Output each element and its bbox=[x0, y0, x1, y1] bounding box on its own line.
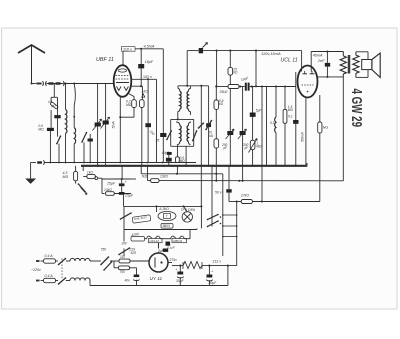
resistor 13kOhm bbox=[102, 193, 105, 195]
capacitor block band bbox=[88, 139, 93, 142]
wire H1 corner down x=163 bbox=[162, 49, 164, 133]
svg-text:25μF: 25μF bbox=[106, 182, 116, 186]
IF transformer T1 top bracket bbox=[178, 85, 209, 87]
wire bottom bus corner bbox=[227, 266, 229, 286]
electrolytic 25uF lower bbox=[119, 192, 125, 195]
ground bbox=[26, 179, 35, 183]
svg-text:7: 7 bbox=[166, 215, 168, 219]
svg-text:MΩ: MΩ bbox=[256, 145, 262, 149]
svg-text:UBF11: UBF11 bbox=[173, 239, 183, 243]
capacitor 35pF on osc line bbox=[160, 133, 166, 137]
svg-text:0,4 A: 0,4 A bbox=[45, 274, 54, 278]
tube UY 11 internals bbox=[154, 258, 156, 268]
tube UBF 11 internals bbox=[118, 69, 126, 72]
svg-text:kΩ: kΩ bbox=[209, 134, 214, 138]
svg-text:45mA: 45mA bbox=[313, 54, 323, 58]
svg-text:UBF 11: UBF 11 bbox=[96, 57, 114, 63]
svg-text:UY 11: UY 11 bbox=[150, 276, 163, 281]
wire H1 110v line bbox=[121, 48, 163, 50]
trimmer on H1b bbox=[199, 48, 203, 53]
tube UY 11 envelope bbox=[149, 253, 168, 272]
svg-text:25kΩ: 25kΩ bbox=[219, 90, 228, 94]
choke lower bbox=[66, 280, 70, 282]
resistor 0,5 MOhm osc bbox=[176, 157, 180, 163]
wire rail2 bbox=[124, 229, 197, 231]
resistor 0,3 MOhm diagonal bbox=[50, 97, 52, 104]
svg-text:525: 525 bbox=[131, 251, 137, 255]
wire gang dashed bbox=[61, 259, 63, 279]
wire UCL anode x320 via NG bbox=[319, 95, 321, 122]
wire tuning branch 2 bbox=[105, 84, 107, 166]
voltage selector switches bbox=[98, 260, 102, 262]
wire line A bbox=[159, 180, 343, 182]
wire x122 bus to rail bbox=[121, 166, 123, 179]
svg-text:102 v: 102 v bbox=[143, 75, 152, 79]
wire H2 102v line bbox=[131, 78, 156, 80]
output transformer secondary bbox=[355, 52, 357, 55]
svg-text:110 v: 110 v bbox=[123, 47, 132, 51]
switch arm mains low bbox=[119, 248, 130, 255]
wire left branch stem bbox=[53, 84, 55, 98]
wire tuning branch 1 bbox=[97, 84, 99, 166]
svg-text:110v,15mA: 110v,15mA bbox=[261, 51, 281, 56]
svg-text:kΩ: kΩ bbox=[233, 71, 238, 75]
svg-text:750: 750 bbox=[101, 247, 107, 251]
plug symbol on H5 bbox=[37, 161, 42, 163]
resistor 1,5MOhm bbox=[284, 86, 286, 109]
resistor NG bbox=[318, 122, 322, 133]
capacitor on x295 bbox=[293, 120, 298, 124]
svg-text:1kΩ: 1kΩ bbox=[87, 171, 93, 175]
wire column x242 bbox=[242, 86, 244, 166]
wire UCL grid column x295 bbox=[295, 87, 297, 167]
wire L1 line bbox=[140, 166, 142, 174]
antenna plug coupling bbox=[42, 81, 45, 86]
wire H5 dots bbox=[50, 162, 52, 164]
terminal mains lower bbox=[36, 280, 40, 282]
svg-text:+: + bbox=[211, 270, 213, 274]
wire column x256 bbox=[255, 51, 257, 87]
svg-text:1kΩ: 1kΩ bbox=[142, 90, 149, 94]
switch arm osc right bbox=[193, 131, 197, 141]
switch arm bias bbox=[78, 184, 85, 192]
wire ground stem bbox=[31, 162, 36, 164]
resistor 750 box bbox=[119, 266, 130, 270]
oscillator transformer T2 windings bbox=[176, 122, 180, 126]
switch arm band bbox=[82, 133, 87, 143]
svg-text:27kΩ: 27kΩ bbox=[240, 193, 249, 197]
capacitor 19uF series bbox=[245, 83, 247, 91]
dial lamp with cross bbox=[184, 206, 188, 211]
svg-text:2nF: 2nF bbox=[121, 241, 129, 245]
wire mains selector columns bbox=[222, 174, 224, 256]
svg-text:0,1μF: 0,1μF bbox=[167, 246, 176, 250]
resistor 1kOhm vertical bbox=[140, 100, 145, 108]
wire UCL cathode x306 bbox=[305, 97, 307, 166]
svg-text:4 GW 29: 4 GW 29 bbox=[348, 89, 365, 128]
svg-text:kΩ: kΩ bbox=[219, 102, 224, 106]
svg-text:MΩ: MΩ bbox=[288, 108, 294, 112]
node antenna junction bbox=[30, 82, 32, 84]
wire filament connections bbox=[145, 238, 147, 240]
svg-text:5803: 5803 bbox=[163, 224, 171, 228]
svg-text:18μF: 18μF bbox=[145, 60, 154, 64]
svg-text:4,5mA: 4,5mA bbox=[144, 45, 155, 49]
svg-text:25μF: 25μF bbox=[124, 193, 134, 197]
svg-text:40v: 40v bbox=[125, 278, 131, 282]
capacitor 0,1 bbox=[166, 158, 172, 162]
oscillator transformer T2 brackets bbox=[171, 118, 194, 120]
svg-text:270v: 270v bbox=[170, 258, 178, 262]
switch arm dial left bbox=[121, 213, 132, 219]
svg-text:NG: NG bbox=[323, 126, 329, 130]
resistor 0,2 MOhm bbox=[129, 94, 135, 100]
svg-text:~220v: ~220v bbox=[31, 268, 41, 272]
wire thick bus H6 bbox=[81, 165, 307, 167]
tube UCL 11 envelope bbox=[298, 66, 318, 98]
wire line B 27k bbox=[229, 201, 241, 203]
svg-text:0,4 A: 0,4 A bbox=[45, 254, 54, 258]
wire to UY11 bbox=[130, 260, 149, 262]
wire speaker bottom line bbox=[317, 76, 344, 78]
wire cathode UBF down bbox=[119, 96, 121, 163]
box PHILIPS 2233 bbox=[132, 215, 151, 223]
terminal jack bbox=[95, 177, 98, 180]
wire H2b corner up to UCL grid bbox=[295, 72, 297, 87]
switch mains lower bbox=[56, 280, 59, 282]
wire anode drops into UCL bbox=[301, 51, 303, 72]
svg-text:6,3kΩ: 6,3kΩ bbox=[160, 207, 170, 211]
capacitor block right of T2 bbox=[206, 123, 211, 127]
svg-text:5μF: 5μF bbox=[256, 109, 263, 113]
speaker bbox=[356, 51, 368, 53]
resistor 20kOhm bbox=[215, 109, 217, 138]
wire H2b bbox=[216, 86, 228, 88]
wire H1c to transformer bbox=[311, 51, 343, 53]
trimmer 300pF bbox=[240, 131, 246, 135]
capacitor 50pF bbox=[147, 79, 149, 123]
filament UBF 11 bbox=[171, 236, 185, 239]
filament UCL 11 bbox=[147, 236, 161, 239]
potentiometer 1MOhm bbox=[250, 140, 255, 149]
svg-text:13kΩ: 13kΩ bbox=[104, 188, 112, 192]
wire UY top feed bbox=[158, 252, 160, 253]
box 5803 bbox=[161, 224, 173, 229]
svg-text:UCL 11: UCL 11 bbox=[281, 58, 298, 64]
switch mains upper bbox=[56, 260, 59, 262]
switch arm mid column bbox=[206, 121, 212, 130]
coil 0,1 column x276 bbox=[275, 86, 277, 117]
svg-text:30μF: 30μF bbox=[176, 279, 185, 283]
wire UY output 270v bbox=[168, 262, 172, 264]
wire antenna stem bbox=[31, 45, 33, 84]
label 110v box bbox=[122, 47, 136, 52]
antenna bbox=[18, 45, 45, 53]
svg-text:0,1: 0,1 bbox=[270, 121, 275, 125]
filter resistor zigzag bbox=[172, 265, 183, 267]
wire column x266 bbox=[266, 86, 268, 166]
choke upper bbox=[66, 260, 70, 262]
svg-text:0,1: 0,1 bbox=[288, 115, 293, 119]
resistor 25kOhm horizontal bbox=[228, 85, 239, 89]
svg-text:7kΩ: 7kΩ bbox=[141, 174, 147, 178]
wire H1b osc supply bbox=[187, 50, 198, 52]
wire T2 stems down bbox=[176, 145, 178, 157]
trimmer arm if bbox=[167, 131, 171, 140]
svg-text:50mA: 50mA bbox=[301, 132, 305, 142]
wire selector drop bbox=[236, 265, 238, 267]
wire rail1 bbox=[124, 205, 202, 207]
svg-text:30μF: 30μF bbox=[209, 281, 218, 285]
scale lamp oval bbox=[156, 206, 158, 212]
trimmer cap 1 bbox=[95, 123, 101, 127]
capacitor block 2 left column bbox=[50, 110, 52, 128]
trimmer cap 2 bbox=[103, 121, 109, 125]
tube UBF 11 envelope bbox=[114, 65, 132, 97]
wire mains bottom bus bbox=[90, 285, 228, 287]
wire column x262 bbox=[261, 86, 263, 166]
wire osc top vertical bbox=[186, 51, 188, 86]
svg-text:MΩ: MΩ bbox=[63, 175, 69, 179]
switch arm left column bbox=[57, 136, 61, 143]
trimmer 200pF bbox=[227, 131, 233, 135]
svg-text:2nF: 2nF bbox=[317, 59, 325, 63]
capacitor block on left branch bbox=[57, 97, 59, 115]
svg-text:750: 750 bbox=[120, 270, 126, 274]
wire transformer down to line A bbox=[342, 77, 344, 181]
svg-text:5mA: 5mA bbox=[112, 121, 116, 129]
capacitor 0,1uF filament bbox=[166, 242, 171, 246]
IF transformer T1 windings bbox=[178, 89, 180, 92]
selector rungs bbox=[223, 214, 237, 216]
capacitor 18uF bbox=[140, 48, 142, 50]
svg-text:MΩ: MΩ bbox=[126, 103, 132, 107]
svg-text:50 v: 50 v bbox=[215, 191, 222, 195]
svg-text:12kΩ: 12kΩ bbox=[160, 174, 168, 178]
wire down from cap to switch bbox=[57, 118, 59, 136]
switch arm right2 bbox=[199, 123, 204, 128]
switch arms right dial bbox=[211, 166, 213, 227]
antenna coil L1 bbox=[65, 84, 67, 110]
wire column x252 with 5uF bbox=[252, 86, 254, 112]
resistor 27kOhm bbox=[241, 200, 252, 204]
wire tube lower stub bbox=[131, 85, 142, 87]
coil L2 with top curve bbox=[74, 84, 75, 106]
electrolytic 25uF upper bbox=[101, 178, 103, 193]
wire anode drop to UBF bbox=[122, 51, 124, 65]
tube UCL 11 internals bbox=[303, 73, 308, 75]
svg-text:UCL11: UCL11 bbox=[150, 239, 160, 243]
output transformer primary bbox=[342, 52, 344, 56]
resistor 110 bbox=[111, 260, 119, 262]
wire grid line H3 bbox=[32, 83, 37, 85]
svg-text:110: 110 bbox=[120, 255, 125, 259]
resistor 1kOhm bias bbox=[82, 166, 84, 171]
electrolytic 30uF second bbox=[208, 266, 210, 275]
wire divider to line A bbox=[215, 148, 217, 182]
resistor 7kOhm bbox=[131, 178, 136, 180]
svg-text:MΩ: MΩ bbox=[38, 128, 44, 132]
wire divider x216 bbox=[216, 51, 218, 87]
wire grid line H3 cont bbox=[47, 83, 64, 85]
output transformer core bbox=[348, 55, 350, 74]
resistor 25kOhm vertical bbox=[229, 51, 231, 68]
terminal mains upper bbox=[36, 260, 40, 262]
svg-text:212 v: 212 v bbox=[213, 259, 222, 263]
svg-text:+: + bbox=[175, 268, 177, 272]
wire thin bus H5 bbox=[45, 162, 196, 164]
resistor 9kOhm bbox=[215, 87, 217, 101]
